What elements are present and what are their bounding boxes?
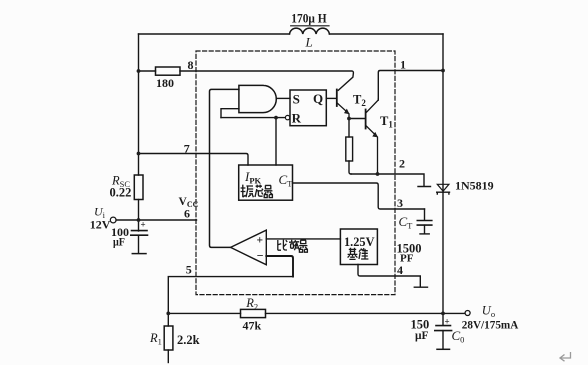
resistor driver emitter: [346, 137, 353, 161]
capacitor 100uF plates: [132, 230, 148, 232]
svg-text:180: 180: [156, 76, 174, 90]
svg-text:μF: μF: [415, 328, 429, 342]
resistor Rsc 0.22: [134, 175, 143, 200]
svg-text:8: 8: [188, 58, 194, 72]
AND gate U1: [239, 85, 276, 112]
wire R1 bottom lead: [167, 350, 169, 363]
wire resistor bottom to pin2 wire: [349, 161, 351, 174]
artifact return mark: [560, 352, 571, 361]
wire top rail right (inductor to switch node): [329, 33, 443, 35]
junction node pin7/left rail: [137, 152, 141, 156]
svg-text:Q: Q: [313, 91, 323, 106]
capacitor C0 bottom lead with stub: [442, 331, 444, 349]
svg-text:CT: CT: [279, 172, 294, 189]
wire pin7 from left rail into IC: [139, 154, 249, 166]
wire CT output from oscillator to pin3: [293, 183, 425, 209]
wire R1 top lead: [167, 313, 169, 326]
junction node input/Vcc: [137, 218, 141, 222]
wire comparator output feedback to AND top input: [210, 89, 239, 247]
wire R line (oscillator to R input with hook): [221, 117, 285, 119]
svg-text:170μ H: 170μ H: [291, 12, 327, 26]
wire bottom feedback R2 left segment: [168, 312, 240, 314]
wire top rail left (Vin to inductor): [139, 33, 290, 35]
junction node pin8/left rail: [137, 69, 141, 73]
svg-text:1.25V: 1.25V: [344, 235, 375, 249]
wire pin5 from IC to left corner: [168, 277, 293, 314]
label 振荡器 oscillator chinese: [241, 185, 273, 198]
transistor T2: [336, 90, 338, 107]
svg-text:1N5819: 1N5819: [455, 179, 494, 193]
svg-text:5: 5: [186, 263, 192, 277]
svg-text:4: 4: [397, 263, 403, 277]
wire pin1 from rail to T1 collector: [378, 71, 443, 101]
wire pin6 Vcc from input node to IC edge: [116, 219, 197, 221]
wire right vertical rail lower (diode to output node): [442, 193, 444, 314]
svg-text:2.2k: 2.2k: [177, 333, 200, 347]
svg-text:T2: T2: [353, 93, 366, 109]
svg-text:R1: R1: [149, 331, 162, 347]
resistor 180: [156, 67, 181, 75]
wire output to terminal: [443, 312, 465, 314]
diode 1N5819: [437, 184, 449, 191]
wire resistor top lead: [348, 119, 350, 138]
input terminal Ui circle: [110, 217, 116, 223]
wire AND lower input hook: [221, 109, 239, 118]
capacitor 100uF bottom lead with stub: [138, 235, 140, 253]
label 基准 reference chinese: [348, 248, 369, 260]
svg-text:47k: 47k: [243, 318, 262, 332]
svg-text:3: 3: [397, 196, 403, 210]
comparator U2: [231, 230, 267, 265]
wire AND output to S input: [276, 97, 290, 99]
svg-text:+: +: [445, 317, 450, 327]
svg-text:28V/175mA: 28V/175mA: [462, 318, 519, 332]
wire Q output to T2 base: [326, 97, 337, 99]
junction node pin1 switch: [441, 69, 445, 73]
svg-text:L: L: [305, 35, 313, 50]
svg-text:IPK: IPK: [244, 169, 262, 186]
junction node output: [441, 312, 445, 316]
svg-text:S: S: [293, 92, 300, 107]
wire R2 to output node: [266, 312, 444, 314]
wire comparator + input to reference: [266, 238, 340, 240]
transistor T1: [365, 110, 367, 129]
capacitor C0 plates: [436, 325, 451, 327]
capacitor C0 150uF top lead: [442, 313, 444, 325]
wire comparator - input to pin5 wire: [266, 256, 293, 277]
label 比较器 comparator chinese: [278, 240, 308, 253]
capacitor 100uF top lead: [138, 220, 140, 231]
junction node R line: [274, 116, 278, 120]
junction node feedback bottom: [166, 312, 170, 316]
wire Rsc to input node: [138, 200, 140, 221]
SR latch box: [290, 90, 326, 126]
svg-text:12V: 12V: [90, 218, 111, 232]
junction node T2 emitter: [347, 117, 351, 121]
wire pin8 from rail to resistor 180: [139, 70, 156, 72]
junction node T1 emitter pin2: [376, 172, 380, 176]
svg-text:CT: CT: [399, 214, 414, 231]
wire reference ground lead to pin4 stub: [358, 265, 428, 288]
svg-text:R2: R2: [245, 296, 258, 312]
resistor R1 2.2k: [164, 326, 173, 350]
svg-text:μF: μF: [113, 235, 125, 249]
wire left vertical rail: [138, 34, 140, 175]
wire T2 emitter node to T1 base: [349, 118, 366, 120]
svg-text:VCC: VCC: [179, 196, 199, 209]
output terminal Uo circle: [465, 311, 470, 316]
svg-text:+: +: [257, 235, 264, 247]
wire right vertical rail upper (switch node to diode): [442, 34, 444, 192]
resistor R2 47k: [241, 309, 266, 317]
wire pin8 rail into IC to T2 collector: [180, 71, 353, 90]
svg-text:2: 2: [399, 157, 405, 171]
svg-text:1: 1: [400, 58, 406, 72]
R input bubble: [285, 115, 289, 119]
svg-text:+: +: [141, 219, 146, 229]
svg-text:−: −: [257, 249, 264, 263]
oscillator box Ipk: [239, 165, 293, 200]
reference box 1.25V: [340, 229, 377, 265]
svg-text:7: 7: [184, 141, 190, 155]
svg-text:T1: T1: [380, 114, 393, 130]
svg-text:0.22: 0.22: [110, 186, 132, 200]
capacitor CT 1500PF: [424, 209, 426, 220]
wire oscillator output vertical to R line: [275, 118, 277, 165]
inductor L 170uH: [290, 28, 330, 34]
wire pin2 with stub terminal: [351, 174, 431, 187]
IC dashed boundary box: [196, 51, 395, 295]
svg-text:PF: PF: [400, 253, 414, 265]
svg-text:R: R: [292, 110, 302, 125]
